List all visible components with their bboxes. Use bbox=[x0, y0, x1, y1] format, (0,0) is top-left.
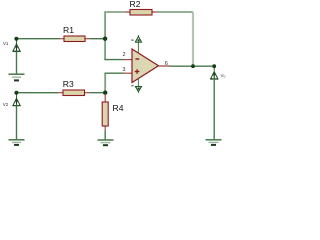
wire R3 to junction B bbox=[90, 92, 106, 94]
wire top loop right horizontal bbox=[157, 11, 194, 13]
op-amp V- power terminal bbox=[131, 78, 141, 93]
ground under V2 bbox=[9, 140, 25, 145]
svg-text:V2: V2 bbox=[3, 102, 9, 107]
resistor R2 bbox=[126, 10, 157, 16]
wire riser R3 junction up to pin3 bend bbox=[104, 73, 106, 93]
svg-text:R3: R3 bbox=[63, 79, 74, 89]
ground under Vo bbox=[206, 140, 222, 145]
wire R4 to ground bbox=[104, 131, 106, 140]
pin 6 lead bbox=[159, 65, 171, 67]
op-amp V+ power terminal bbox=[131, 35, 141, 52]
wire V2 node to R3 bbox=[16, 92, 57, 94]
wire right vertical of loop down to output bbox=[192, 12, 194, 66]
svg-text:Vo: Vo bbox=[221, 73, 226, 79]
node V2 bbox=[14, 91, 18, 95]
wire junction A down to pin2 bend bbox=[104, 39, 106, 60]
terminal V1 bbox=[13, 40, 21, 74]
svg-text:3: 3 bbox=[122, 67, 125, 73]
svg-text:R1: R1 bbox=[63, 25, 74, 35]
ground under V1 bbox=[9, 74, 25, 80]
wire pin2 horizontal bbox=[104, 59, 123, 61]
svg-text:V1: V1 bbox=[3, 41, 9, 46]
pin 3 lead bbox=[124, 72, 133, 74]
wire R1 to junction A bbox=[90, 38, 106, 40]
wire top loop left horizontal bbox=[104, 11, 125, 13]
junction A dot bbox=[103, 37, 107, 41]
wire V1 node to R1 bbox=[16, 38, 59, 40]
wire vertical junction A up to feedback loop bbox=[104, 12, 106, 39]
ground under R4 bbox=[98, 140, 114, 145]
junction feedback/output bbox=[191, 64, 195, 68]
wire output to Vo rail bbox=[170, 65, 214, 67]
resistor R1 bbox=[60, 36, 91, 42]
pin 2 lead bbox=[124, 59, 133, 61]
resistor R3 bbox=[58, 90, 90, 96]
svg-text:R4: R4 bbox=[113, 103, 124, 113]
svg-text:2: 2 bbox=[122, 52, 125, 58]
terminal Vo bbox=[210, 68, 218, 139]
svg-text:R2: R2 bbox=[130, 0, 141, 9]
junction B bbox=[103, 91, 107, 95]
op-amp U1 bbox=[132, 49, 159, 83]
terminal V2 bbox=[13, 94, 21, 139]
wire pin3 horizontal bbox=[105, 72, 124, 74]
node V1 bbox=[14, 37, 18, 41]
junction Vo bbox=[212, 64, 216, 68]
svg-text:6: 6 bbox=[165, 61, 168, 67]
resistor R4 bbox=[102, 94, 108, 131]
